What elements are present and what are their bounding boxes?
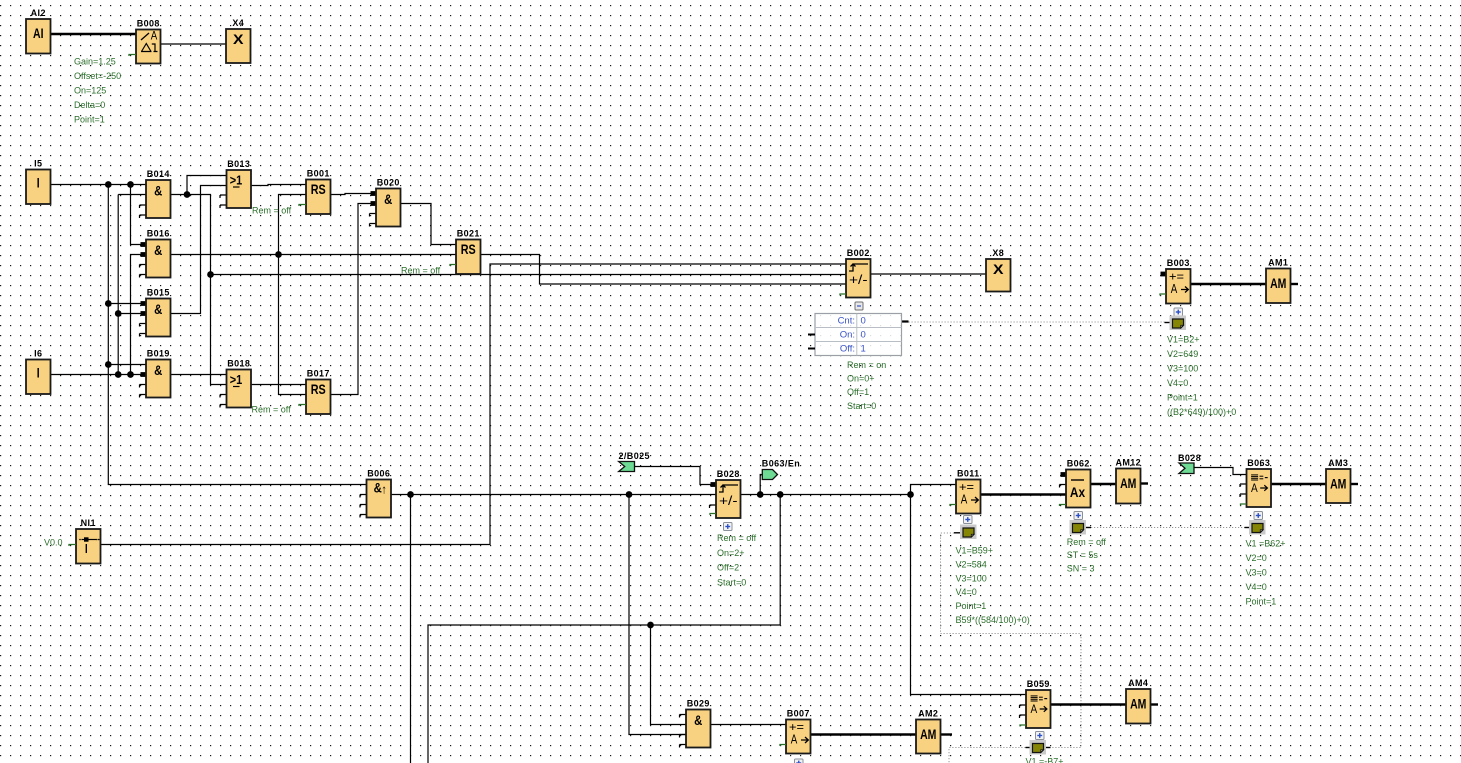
svg-text:B018: B018 (227, 358, 250, 368)
svg-text:Cnt:: Cnt: (838, 316, 855, 327)
svg-text:B59*((584/100)+0): B59*((584/100)+0) (956, 615, 1030, 625)
svg-text:>1: >1 (230, 372, 243, 387)
svg-text:I6: I6 (34, 348, 42, 358)
svg-text:B021: B021 (457, 228, 480, 238)
svg-text:V2=649: V2=649 (1167, 349, 1198, 359)
svg-text:Rem = off: Rem = off (1067, 537, 1107, 547)
svg-text:V3=100: V3=100 (1167, 364, 1198, 374)
svg-text:AI: AI (33, 25, 44, 41)
svg-text:Point=1: Point=1 (1167, 393, 1198, 403)
svg-text:I: I (37, 175, 40, 191)
svg-text:B001: B001 (307, 168, 330, 178)
svg-text:Delta=0: Delta=0 (74, 100, 105, 110)
svg-text:B062: B062 (1067, 458, 1090, 468)
svg-text:&: & (154, 301, 162, 317)
svg-text:V3=0: V3=0 (1246, 568, 1267, 578)
svg-text:Point=1: Point=1 (74, 115, 105, 125)
svg-text:AM2: AM2 (918, 708, 938, 718)
svg-text:X8: X8 (992, 248, 1004, 258)
svg-text:B019: B019 (147, 348, 170, 358)
svg-text:V3=100: V3=100 (956, 573, 987, 583)
svg-text:AM: AM (1330, 476, 1346, 492)
svg-text:On=125: On=125 (74, 86, 106, 96)
svg-text:V1=B59+: V1=B59+ (956, 546, 994, 556)
svg-text:B015: B015 (147, 287, 170, 297)
svg-text:AM: AM (1270, 275, 1286, 291)
svg-text:X: X (233, 31, 244, 47)
svg-text:On=0+: On=0+ (847, 374, 875, 384)
svg-text:NI1: NI1 (81, 518, 96, 528)
svg-text:V2=0: V2=0 (1246, 553, 1267, 563)
svg-text:Rem = on: Rem = on (847, 360, 886, 370)
svg-text:2/B025: 2/B025 (619, 451, 650, 461)
svg-text:X: X (993, 261, 1004, 277)
svg-text:A: A (151, 29, 158, 43)
svg-text:AM: AM (1120, 475, 1136, 491)
svg-text:I5: I5 (34, 158, 42, 168)
svg-text:B059: B059 (1027, 679, 1050, 689)
svg-text:SN = 3: SN = 3 (1067, 563, 1095, 573)
svg-text:A: A (791, 732, 798, 747)
svg-text:B002: B002 (847, 248, 870, 258)
svg-text:B014: B014 (147, 169, 170, 179)
svg-text:Point=1: Point=1 (956, 601, 987, 611)
svg-text:&: & (694, 712, 702, 728)
svg-text:B003: B003 (1167, 258, 1190, 268)
svg-text:RS: RS (311, 181, 326, 197)
svg-text:V4=0: V4=0 (956, 587, 977, 597)
svg-text:1: 1 (861, 344, 866, 355)
svg-text:Off=2: Off=2 (717, 563, 739, 573)
svg-text:B063: B063 (1247, 458, 1270, 468)
svg-text:+/-: +/- (849, 272, 868, 287)
svg-text:B007: B007 (787, 708, 810, 718)
svg-text:A: A (961, 492, 968, 507)
svg-text:AM3: AM3 (1328, 458, 1348, 468)
svg-text:0: 0 (861, 316, 866, 327)
svg-text:&: & (154, 182, 162, 198)
svg-text:On=2+: On=2+ (717, 548, 745, 558)
svg-text:AI2: AI2 (31, 8, 46, 18)
svg-text:ST = 5s: ST = 5s (1067, 550, 1099, 560)
svg-text:V4=0: V4=0 (1167, 378, 1188, 388)
svg-text:I: I (37, 365, 40, 381)
svg-text:&: & (384, 191, 392, 207)
svg-text:Start=0: Start=0 (847, 401, 876, 411)
svg-text:B008: B008 (137, 18, 160, 28)
svg-text:B028: B028 (717, 469, 740, 479)
svg-text:B020: B020 (377, 177, 400, 187)
svg-text:Ax: Ax (1070, 484, 1085, 500)
svg-text:Rem = off: Rem = off (717, 533, 757, 543)
svg-text:On:: On: (840, 330, 855, 341)
svg-text:0: 0 (861, 330, 866, 341)
svg-text:Start=0: Start=0 (717, 577, 746, 587)
svg-text:B028: B028 (1178, 453, 1201, 463)
svg-text:V0.0: V0.0 (44, 538, 63, 548)
svg-text:AM12: AM12 (1115, 457, 1141, 467)
svg-text:V1=B2+: V1=B2+ (1167, 335, 1200, 345)
svg-text:RS: RS (461, 241, 476, 257)
svg-text:V1 =B62+: V1 =B62+ (1246, 539, 1286, 549)
svg-text:&: & (154, 242, 162, 258)
svg-text:>1: >1 (230, 173, 243, 188)
svg-text:Point=1: Point=1 (1246, 597, 1277, 607)
svg-text:AM1: AM1 (1268, 257, 1288, 267)
svg-text:V2=584: V2=584 (956, 559, 987, 569)
svg-text:AM4: AM4 (1128, 678, 1148, 688)
svg-text:B016: B016 (147, 228, 170, 238)
svg-text:↑: ↑ (381, 483, 387, 497)
svg-text:Off:: Off: (840, 344, 855, 355)
svg-text:+/-: +/- (719, 493, 738, 508)
svg-text:A: A (1251, 483, 1258, 495)
svg-text:Rem = off: Rem = off (252, 206, 292, 216)
svg-text:Offset=-250: Offset=-250 (74, 71, 121, 81)
svg-text:RS: RS (311, 381, 326, 397)
svg-text:AM: AM (1130, 696, 1146, 712)
svg-text:((B2*649)/100)+0: ((B2*649)/100)+0 (1167, 407, 1236, 417)
svg-text:X4: X4 (232, 18, 244, 28)
svg-text:AM: AM (920, 726, 936, 742)
svg-text:Off=1: Off=1 (847, 387, 869, 397)
svg-text:B017: B017 (307, 368, 330, 378)
svg-text:B006: B006 (367, 468, 390, 478)
svg-text:B063/En: B063/En (762, 459, 800, 469)
svg-text:V1 =-B7+: V1 =-B7+ (1026, 757, 1064, 763)
svg-text:&: & (154, 362, 162, 378)
svg-text:Rem = off: Rem = off (401, 266, 441, 276)
svg-text:Rem = off: Rem = off (252, 405, 292, 415)
svg-text:B011: B011 (957, 468, 980, 478)
svg-text:A: A (1171, 281, 1178, 296)
svg-text:V4=0: V4=0 (1246, 582, 1267, 592)
svg-text:Gain=1.25: Gain=1.25 (74, 57, 116, 67)
svg-text:A: A (1030, 704, 1037, 716)
svg-text:B013: B013 (227, 159, 250, 169)
svg-text:B029: B029 (687, 698, 710, 708)
